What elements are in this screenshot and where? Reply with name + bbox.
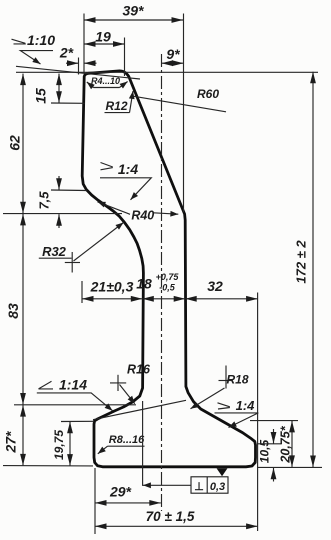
svg-text:20,75*: 20,75*: [279, 425, 293, 463]
dimension 10,5: [257, 429, 281, 482]
slope label 1:10 with symbol and leader: [12, 32, 56, 64]
svg-text:29*: 29*: [109, 484, 132, 500]
svg-text:1:14: 1:14: [59, 377, 87, 393]
svg-text:15: 15: [33, 88, 49, 104]
dimension 29*: [95, 468, 161, 534]
slope label 1:4 (foot top right) with symbol and leader: [215, 398, 259, 428]
dimension 39* (head width at top): [84, 3, 184, 213]
svg-text:10,5: 10,5: [258, 439, 272, 463]
svg-text:27*: 27*: [3, 431, 19, 454]
svg-text:7,5: 7,5: [37, 191, 52, 210]
radius label R16 (foot-web fillet) with center cross: [110, 362, 151, 403]
svg-text:1:10: 1:10: [27, 32, 55, 48]
1:10 slope extension line: [16, 66, 140, 79]
radius label R12 (head top corner): [105, 91, 134, 113]
svg-text:39*: 39*: [122, 3, 144, 19]
svg-text:62: 62: [7, 135, 23, 151]
dimension 27*: [3, 405, 94, 466]
dimension 21±0,3: [82, 279, 142, 304]
svg-text:19: 19: [95, 29, 111, 45]
datum triangle on foot base: [217, 468, 228, 476]
dimension 83: [5, 214, 136, 405]
svg-text:9*: 9*: [166, 46, 180, 62]
svg-text:83: 83: [5, 303, 21, 319]
dimension 7,5: [37, 176, 87, 228]
dimension 15: [33, 74, 85, 104]
svg-text:R16: R16: [127, 362, 151, 376]
radius label R60 (head side face): [134, 87, 226, 112]
svg-text:2*: 2*: [59, 45, 74, 61]
svg-text:21±0,3: 21±0,3: [90, 279, 134, 295]
svg-text:1:4: 1:4: [118, 161, 138, 177]
radius label R32 (web fillet) with center cross: [39, 223, 124, 273]
svg-text:-0,5: -0,5: [159, 283, 176, 293]
radius label R8...16 (foot bottom corners): [98, 434, 145, 454]
radius label R18 (foot-web fillet right): [191, 366, 249, 409]
svg-text:172 ± 2: 172 ± 2: [294, 240, 309, 284]
dimension 62: [7, 74, 24, 214]
svg-text:R40: R40: [131, 208, 154, 222]
dimension 20,75*: [250, 421, 298, 467]
perpendicularity tolerance frame 0,3 with leader: [143, 477, 228, 493]
dimension 18 +0,75 -0,5 (web thickness): [136, 272, 185, 299]
dimension 19: [84, 29, 125, 77]
rail profile outline (head, web, foot cross-section): [82, 71, 255, 467]
svg-text:18: 18: [136, 276, 152, 292]
dimension 172 ± 2 (overall height): [257, 72, 322, 468]
radius label R40 (head-web fillets): [98, 202, 179, 223]
svg-text:R12: R12: [105, 99, 127, 113]
top surface reference line: [16, 71, 318, 73]
svg-text:R4...10: R4...10: [91, 76, 120, 86]
vertical centerline (dash-dot axis): [161, 54, 163, 511]
svg-text:R60: R60: [197, 87, 219, 101]
svg-text:0,3: 0,3: [210, 481, 225, 493]
svg-text:70 ± 1,5: 70 ± 1,5: [146, 509, 195, 524]
foot slope extension line: [93, 400, 186, 419]
dimension 32: [185, 278, 257, 531]
slope label 1:4 (head underside) with symbol and leader: [100, 161, 151, 200]
svg-text:R18: R18: [226, 373, 248, 387]
head underside reference line: [3, 213, 122, 215]
dimension 2*: [59, 45, 97, 75]
web side extension line: [142, 401, 144, 486]
svg-text:R32: R32: [42, 244, 67, 259]
dimension 70 ± 1,5 (foot width): [95, 509, 258, 526]
svg-text:19,75: 19,75: [52, 430, 66, 460]
radius label R4...10 (head corner radii): [87, 76, 128, 88]
svg-text:⊥: ⊥: [194, 481, 204, 493]
svg-text:R8...16: R8...16: [109, 434, 145, 446]
dimension 9*: [162, 46, 184, 63]
svg-text:+0,75: +0,75: [156, 272, 180, 282]
dimension 19,75: [52, 421, 94, 465]
svg-text:1:4: 1:4: [236, 398, 256, 413]
svg-text:32: 32: [207, 278, 223, 294]
slope label 1:14 (foot top surface) with symbol and leader: [37, 377, 113, 411]
